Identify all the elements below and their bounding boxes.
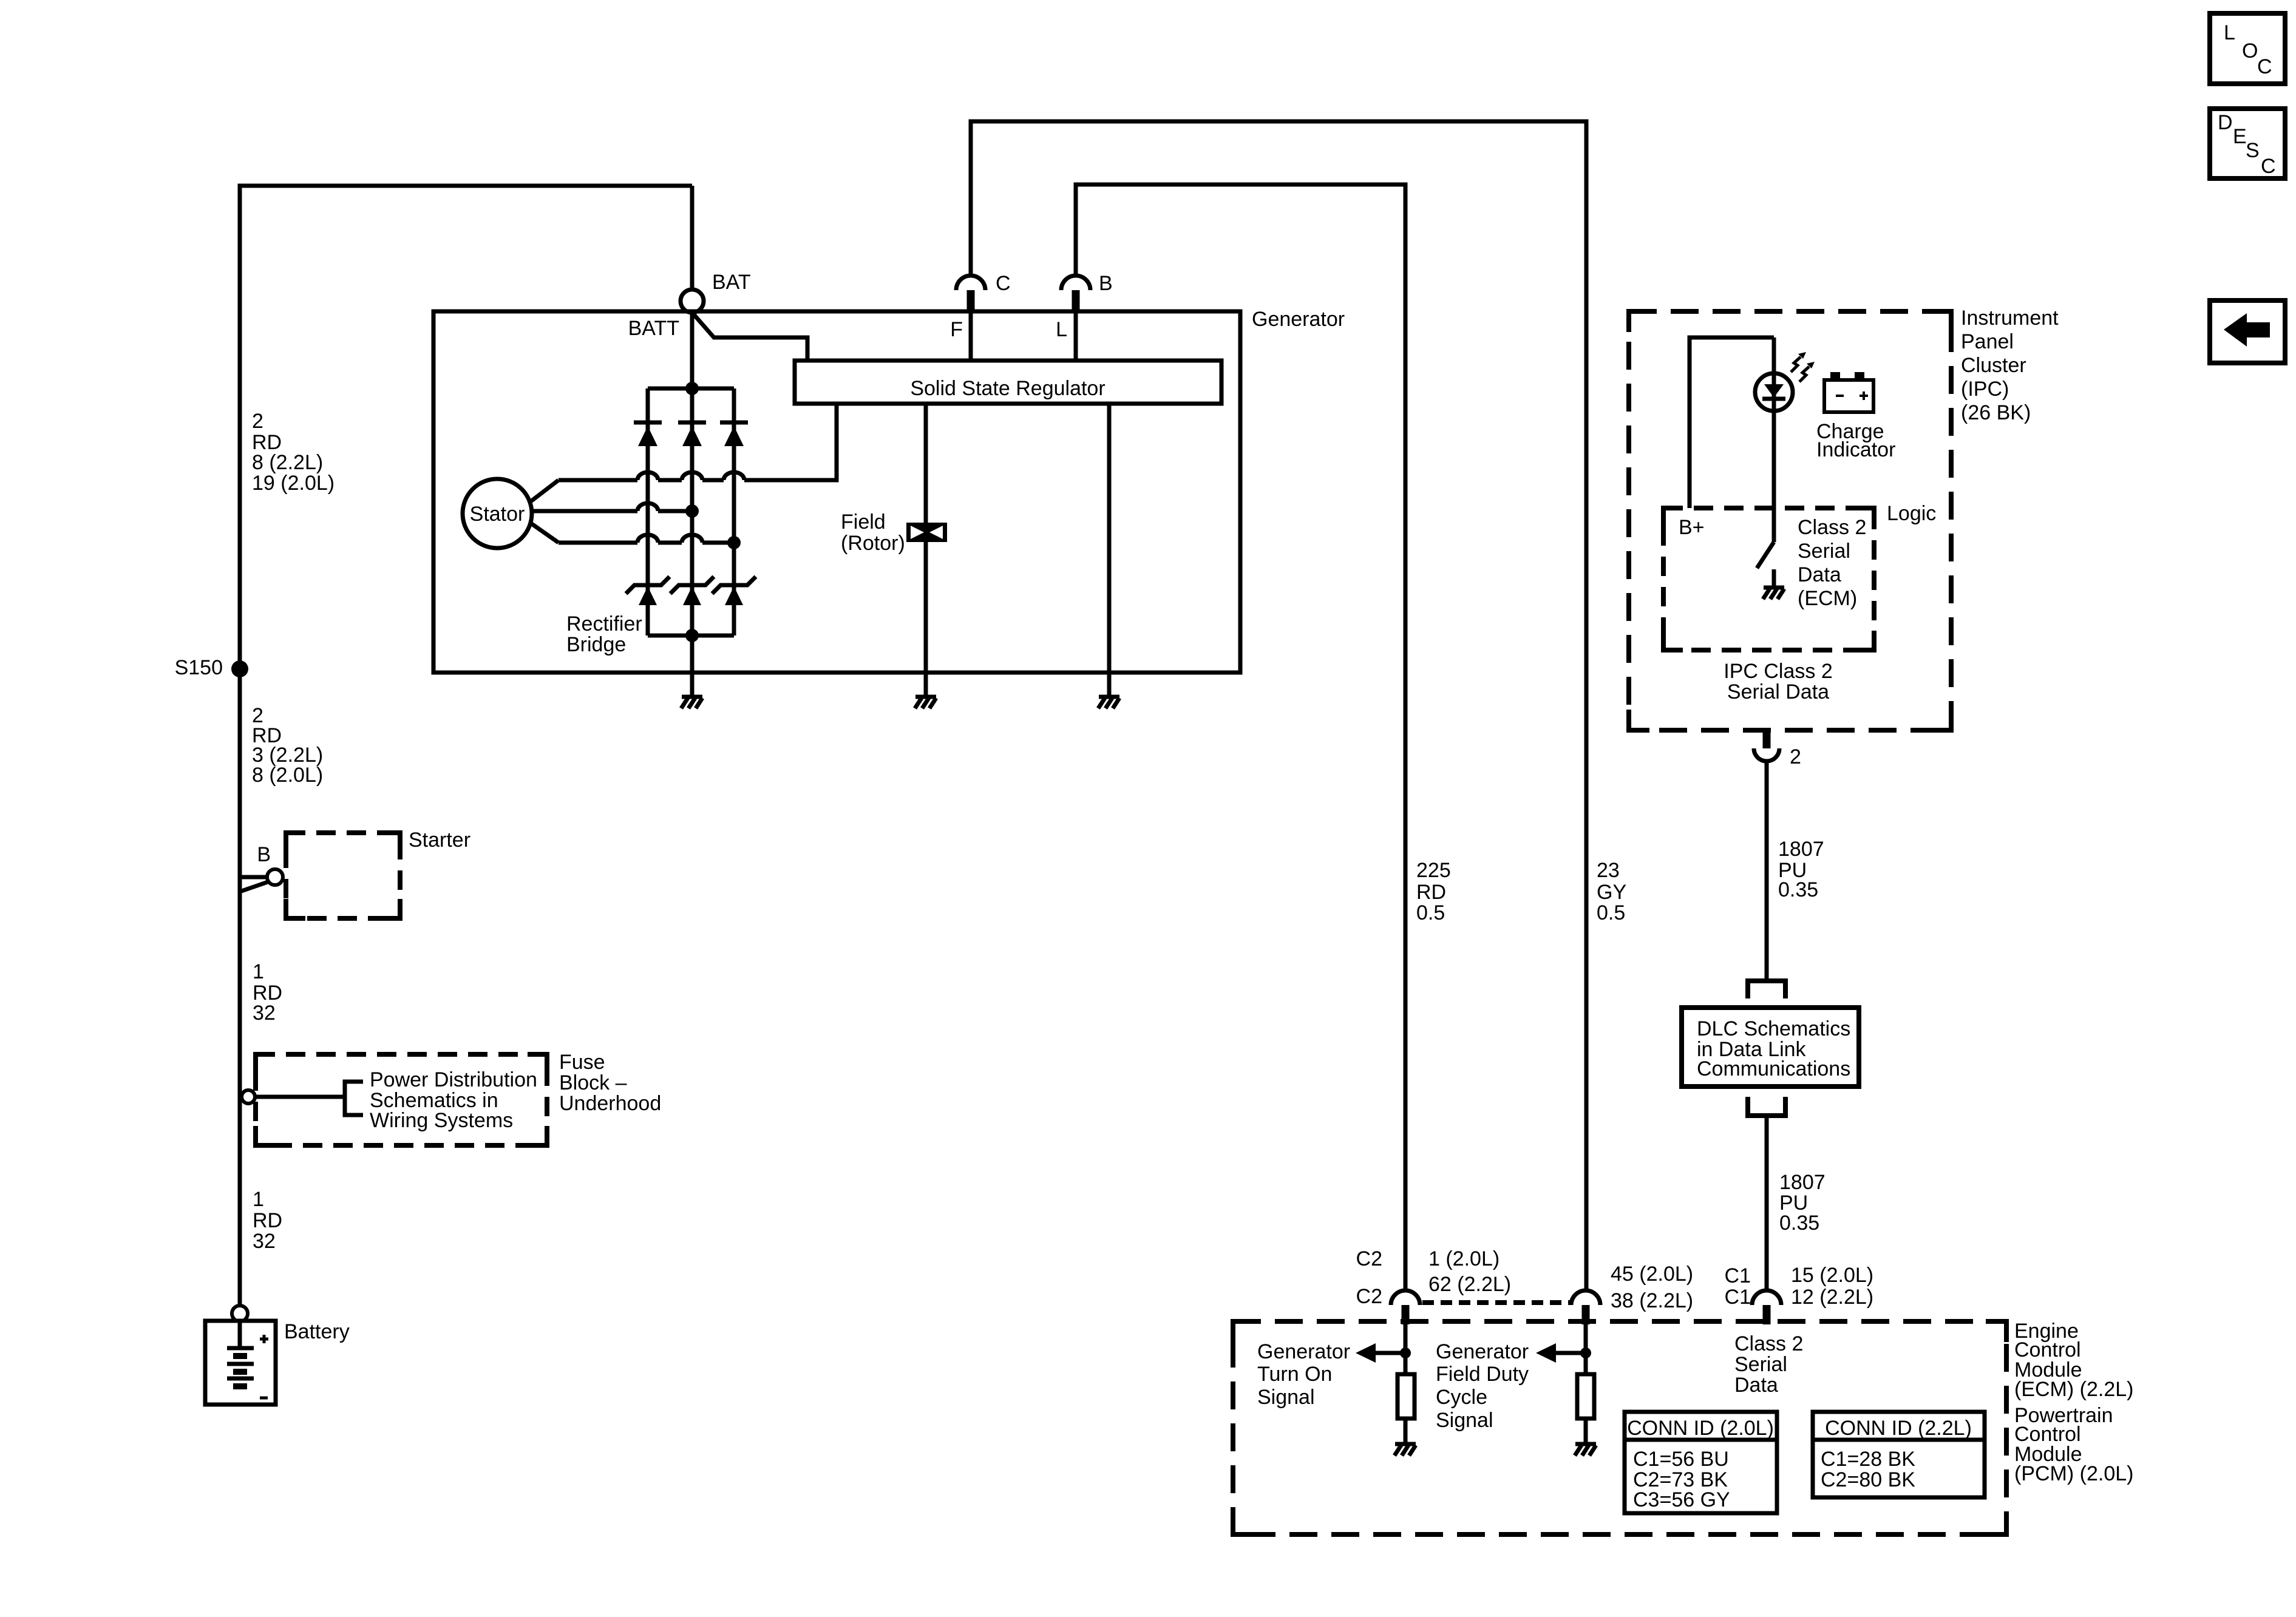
switch blade (logic driver) (1757, 542, 1774, 568)
svg-text:D: D (2218, 111, 2233, 134)
ground G5 (ECM turn-on) (1394, 1444, 1416, 1456)
svg-text:45 (2.0L): 45 (2.0L) (1611, 1263, 1693, 1286)
svg-text:0.5: 0.5 (1597, 901, 1625, 924)
label C1 C1 (1725, 1264, 1751, 1309)
solid state regulator U1 (795, 361, 1221, 404)
svg-text:1807: 1807 (1778, 838, 1824, 861)
svg-text:Serial: Serial (1798, 540, 1850, 563)
label wire 225 RD 0.5 (1416, 859, 1451, 924)
svg-text:C2: C2 (1356, 1247, 1382, 1270)
label pin 1 (2.0L) 62 (2.2L) (1428, 1247, 1511, 1296)
connector C2 (ECM turn-on) (1391, 1290, 1420, 1324)
label wire 1 RD 32 (upper) (253, 960, 282, 1025)
label wire 1 RD 32 (lower) (253, 1188, 282, 1253)
starter box (dashed) (286, 833, 400, 918)
connector C terminal (956, 276, 985, 311)
label Generator Turn On Signal (1257, 1340, 1350, 1409)
label Field (Rotor) (841, 510, 905, 555)
svg-text:Instrument: Instrument (1961, 307, 2059, 330)
svg-text:Rectifier: Rectifier (566, 612, 642, 636)
diode D1 (top left) (634, 422, 662, 446)
diode D2 (top middle) (678, 422, 706, 446)
svg-text:Underhood: Underhood (559, 1092, 661, 1115)
svg-text:S150: S150 (175, 656, 223, 679)
LOC icon box (2210, 13, 2285, 84)
light rays arrows (1791, 352, 1815, 382)
svg-text:1 (2.0L): 1 (2.0L) (1428, 1247, 1500, 1270)
connector C2 (ECM field duty) (1571, 1290, 1600, 1324)
node fuse tap ring (242, 1090, 255, 1103)
svg-text:Field Duty: Field Duty (1436, 1363, 1529, 1386)
svg-text:0.35: 0.35 (1779, 1212, 1819, 1235)
wire regulator to field (924, 404, 928, 523)
wire C to ECM field duty signal (971, 121, 1586, 1290)
wire bridge left column (646, 388, 650, 636)
svg-text:Communications: Communications (1697, 1057, 1850, 1080)
svg-text:(26 BK): (26 BK) (1961, 401, 2031, 424)
svg-text:Block –: Block – (559, 1071, 627, 1094)
junction dot phase B to middle column (685, 504, 699, 518)
label Rectifier Bridge (566, 612, 642, 656)
resistor R1 (1398, 1374, 1415, 1419)
svg-text:Signal: Signal (1436, 1409, 1493, 1432)
field rotor coil (906, 523, 947, 542)
svg-text:Turn On: Turn On (1257, 1363, 1332, 1386)
svg-text:Fuse: Fuse (559, 1051, 605, 1074)
svg-text:1: 1 (253, 960, 264, 983)
svg-text:B: B (1099, 272, 1113, 295)
svg-text:RD: RD (253, 1209, 282, 1232)
ground G4 (logic) (1763, 588, 1784, 599)
svg-text:Battery: Battery (284, 1320, 350, 1343)
pin L wire (1074, 311, 1078, 361)
svg-text:Panel: Panel (1961, 330, 2014, 353)
ground G3 (regulator) (1098, 697, 1119, 708)
svg-text:Data: Data (1734, 1374, 1778, 1397)
rectifier bridge top rail (648, 387, 734, 391)
svg-text:2: 2 (252, 410, 263, 433)
svg-text:8 (2.0L): 8 (2.0L) (252, 764, 323, 787)
IPC box (dashed) (1629, 311, 1951, 730)
reference bracket (power distribution) (345, 1082, 363, 1115)
label wire 1807 PU 0.35 (upper) (1778, 838, 1824, 901)
svg-text:Indicator: Indicator (1816, 438, 1895, 461)
wire regulator right pin to ground (1107, 404, 1112, 697)
svg-text:IPC Class 2: IPC Class 2 (1724, 660, 1833, 683)
svg-text:0.5: 0.5 (1416, 901, 1445, 924)
back arrow icon box (2210, 300, 2285, 363)
svg-text:Starter: Starter (409, 829, 470, 852)
svg-text:B+: B+ (1679, 516, 1705, 539)
DESC icon box (2210, 109, 2285, 178)
zener diode Z1 (bottom left) (626, 577, 670, 605)
svg-text:Generator: Generator (1257, 1340, 1350, 1363)
zener diode Z2 (bottom middle) (670, 577, 714, 605)
connector 2 cup (1754, 748, 1779, 761)
wire stator phase C (bottom) (530, 523, 734, 543)
ground G2 (field) (915, 697, 936, 708)
junction dot turn-on (1400, 1347, 1411, 1358)
arrow turn-on signal (1356, 1343, 1406, 1363)
svg-text:C2: C2 (1356, 1285, 1382, 1308)
label Class 2 Serial Data (ECM side) (1734, 1332, 1803, 1397)
wire stator phase A (top) with hops to regulator (530, 404, 837, 502)
wire B to ECM turn-on signal (1076, 185, 1405, 1290)
label Charge Indicator (1816, 420, 1895, 461)
svg-text:E: E (2233, 125, 2247, 148)
svg-text:(PCM) (2.0L): (PCM) (2.0L) (2014, 1462, 2133, 1485)
svg-text:19 (2.0L): 19 (2.0L) (252, 472, 335, 495)
svg-text:O: O (2242, 39, 2258, 63)
svg-text:62 (2.2L): 62 (2.2L) (1428, 1273, 1511, 1296)
svg-text:B: B (257, 843, 271, 866)
svg-text:1807: 1807 (1779, 1171, 1826, 1194)
wire BATT vertical through rectifier bridge to ground (690, 313, 695, 697)
table CONN ID (2.0L) (1625, 1412, 1777, 1513)
wire battery feed top run (battery positive to generator BAT) (240, 186, 692, 875)
label IPC Class 2 Serial Data (1724, 660, 1833, 703)
svg-text:Solid State Regulator: Solid State Regulator (910, 377, 1105, 400)
label pin 15 (2.0L) 12 (2.2L) (1791, 1264, 1873, 1309)
ground G6 (ECM field duty) (1575, 1444, 1596, 1456)
svg-text:225: 225 (1416, 859, 1451, 882)
svg-text:Class 2: Class 2 (1798, 516, 1866, 539)
svg-text:32: 32 (253, 1230, 276, 1253)
connector bracket (DLC bottom) (1748, 1097, 1785, 1116)
svg-text:38 (2.2L): 38 (2.2L) (1611, 1289, 1693, 1312)
label wire 23 GY 0.5 (1597, 859, 1626, 924)
wire charge indicator feed (1772, 337, 1776, 373)
svg-text:Signal: Signal (1257, 1386, 1315, 1409)
DLC reference box (1682, 1008, 1859, 1086)
svg-text:S: S (2246, 139, 2260, 162)
battery icon (charge indicator) (1824, 372, 1873, 412)
wire BATT fusible-link diagonal to regulator (693, 313, 807, 361)
label wire 2 RD 3/8 (252, 704, 323, 787)
svg-text:2: 2 (1790, 745, 1801, 768)
rectifier bridge bottom rail (648, 634, 734, 638)
wire starter tap stub (240, 875, 268, 880)
zener diode Z3 (bottom right) (712, 577, 756, 605)
node starter B terminal ring (267, 869, 283, 885)
label Power Distribution Schematics in Wiring Systems (370, 1068, 537, 1132)
battery BT1 (205, 1321, 276, 1405)
wire fuse tap to reference bracket (255, 1095, 345, 1099)
wire BAT drop to generator BAT terminal (690, 186, 695, 290)
svg-text:Serial: Serial (1734, 1353, 1787, 1376)
fuse block box (dashed) (256, 1054, 547, 1145)
label Class 2 Serial Data (ECM) (1798, 516, 1866, 610)
svg-text:C1: C1 (1725, 1264, 1751, 1287)
svg-text:RD: RD (1416, 881, 1446, 904)
svg-text:C1: C1 (1725, 1286, 1751, 1309)
junction dot field duty (1580, 1347, 1591, 1358)
wire IPC to DLC (1765, 761, 1769, 978)
svg-text:C: C (2257, 55, 2272, 78)
svg-text:(ECM): (ECM) (1798, 587, 1857, 610)
label Fuse Block Underhood (559, 1051, 661, 1115)
label Instrument Panel Cluster (IPC) (26 BK) (1961, 307, 2059, 424)
svg-text:Cluster: Cluster (1961, 354, 2026, 377)
ground G1 (rectifier bridge) (681, 697, 702, 708)
svg-text:23: 23 (1597, 859, 1620, 882)
svg-text:Cycle: Cycle (1436, 1386, 1487, 1409)
svg-text:Stator: Stator (470, 503, 525, 526)
LED charge indicator (1755, 373, 1793, 542)
svg-text:C3=56 GY: C3=56 GY (1633, 1488, 1730, 1511)
pin 2 (IPC bottom) (1763, 730, 1771, 748)
wire connector to resistor R1 (1404, 1324, 1408, 1374)
wire dashed connector link (1422, 1300, 1571, 1305)
table CONN ID (2.2L) (1813, 1412, 1985, 1497)
svg-text:0.35: 0.35 (1778, 878, 1818, 901)
wire connector to resistor R2 (1584, 1324, 1588, 1374)
resistor R2 (1577, 1374, 1594, 1419)
svg-text:Logic: Logic (1887, 502, 1936, 525)
junction dot phase C to right column (727, 536, 741, 549)
svg-text:L: L (2224, 21, 2235, 44)
pin F wire (969, 311, 973, 361)
arrow field duty signal (1536, 1343, 1586, 1363)
wire R1 to ground (1404, 1419, 1408, 1444)
node battery positive ring (232, 1306, 248, 1321)
svg-text:Field: Field (841, 510, 886, 534)
generator box (433, 311, 1240, 673)
label Generator Field Duty Cycle Signal (1436, 1340, 1529, 1432)
svg-text:Power Distribution: Power Distribution (370, 1068, 537, 1091)
junction dot bridge bottom rail (685, 629, 699, 642)
svg-text:DLC Schematics: DLC Schematics (1697, 1017, 1850, 1040)
wire bridge right column (732, 388, 736, 636)
label C2 C2 (1356, 1247, 1382, 1308)
node BAT terminal ring (681, 290, 704, 313)
svg-text:C1=56 BU: C1=56 BU (1633, 1448, 1729, 1471)
svg-text:CONN ID (2.0L): CONN ID (2.0L) (1627, 1417, 1774, 1440)
svg-text:L: L (1056, 318, 1067, 341)
stator winding circle (463, 479, 532, 548)
svg-text:C: C (996, 272, 1011, 295)
wire stator phase B (middle) (532, 503, 692, 511)
wire DLC to ECM (1765, 1116, 1769, 1290)
svg-text:Data: Data (1798, 563, 1841, 586)
svg-text:C: C (2261, 155, 2276, 178)
logic box (dashed) (1663, 508, 1874, 650)
label Engine Control Module (ECM) (2.2L) Powertrain Control Module (PCM) (2.0L) (2014, 1320, 2133, 1485)
label wire 2 RD 8/19 (252, 410, 335, 495)
svg-text:GY: GY (1597, 881, 1626, 904)
label wire 1807 PU 0.35 (lower) (1779, 1171, 1826, 1235)
svg-text:Class 2: Class 2 (1734, 1332, 1803, 1355)
wire field to ground (924, 542, 928, 697)
ECM box (dashed) (1233, 1321, 2006, 1534)
svg-text:C1=28 BK: C1=28 BK (1821, 1448, 1915, 1471)
connector B terminal (1061, 276, 1090, 311)
svg-text:Bridge: Bridge (566, 633, 626, 656)
wire B+ branch (1690, 337, 1774, 508)
wire switch to ground (1772, 569, 1776, 588)
label pin 45 (2.0L) 38 (2.2L) (1611, 1263, 1693, 1312)
wire R2 to ground (1584, 1419, 1588, 1444)
svg-text:Generator: Generator (1252, 308, 1345, 331)
svg-text:(ECM) (2.2L): (ECM) (2.2L) (2014, 1378, 2133, 1401)
diode D3 (top right) (720, 422, 748, 446)
svg-text:C2=80 BK: C2=80 BK (1821, 1468, 1915, 1491)
svg-text:BAT: BAT (712, 271, 751, 294)
svg-text:15 (2.0L): 15 (2.0L) (1791, 1264, 1873, 1287)
svg-text:CONN ID (2.2L): CONN ID (2.2L) (1825, 1417, 1972, 1440)
svg-text:32: 32 (253, 1002, 276, 1025)
svg-text:(Rotor): (Rotor) (841, 532, 905, 555)
svg-text:BATT: BATT (628, 317, 679, 340)
svg-text:F: F (950, 318, 963, 341)
svg-text:8 (2.2L): 8 (2.2L) (252, 451, 323, 474)
svg-text:Generator: Generator (1436, 1340, 1529, 1363)
junction dot bridge top rail (685, 382, 699, 395)
connector bracket (DLC top) (1748, 981, 1785, 998)
node S150 (175, 656, 248, 679)
svg-text:(IPC): (IPC) (1961, 378, 2009, 401)
svg-text:Serial Data: Serial Data (1727, 680, 1829, 703)
svg-text:Wiring Systems: Wiring Systems (370, 1109, 513, 1132)
svg-text:12 (2.2L): 12 (2.2L) (1791, 1286, 1873, 1309)
wire starter fusible diagonal (240, 881, 270, 892)
svg-text:1: 1 (253, 1188, 264, 1211)
connector C1 (ECM class 2) (1752, 1290, 1781, 1324)
wire battery feed lower run (238, 875, 242, 1306)
